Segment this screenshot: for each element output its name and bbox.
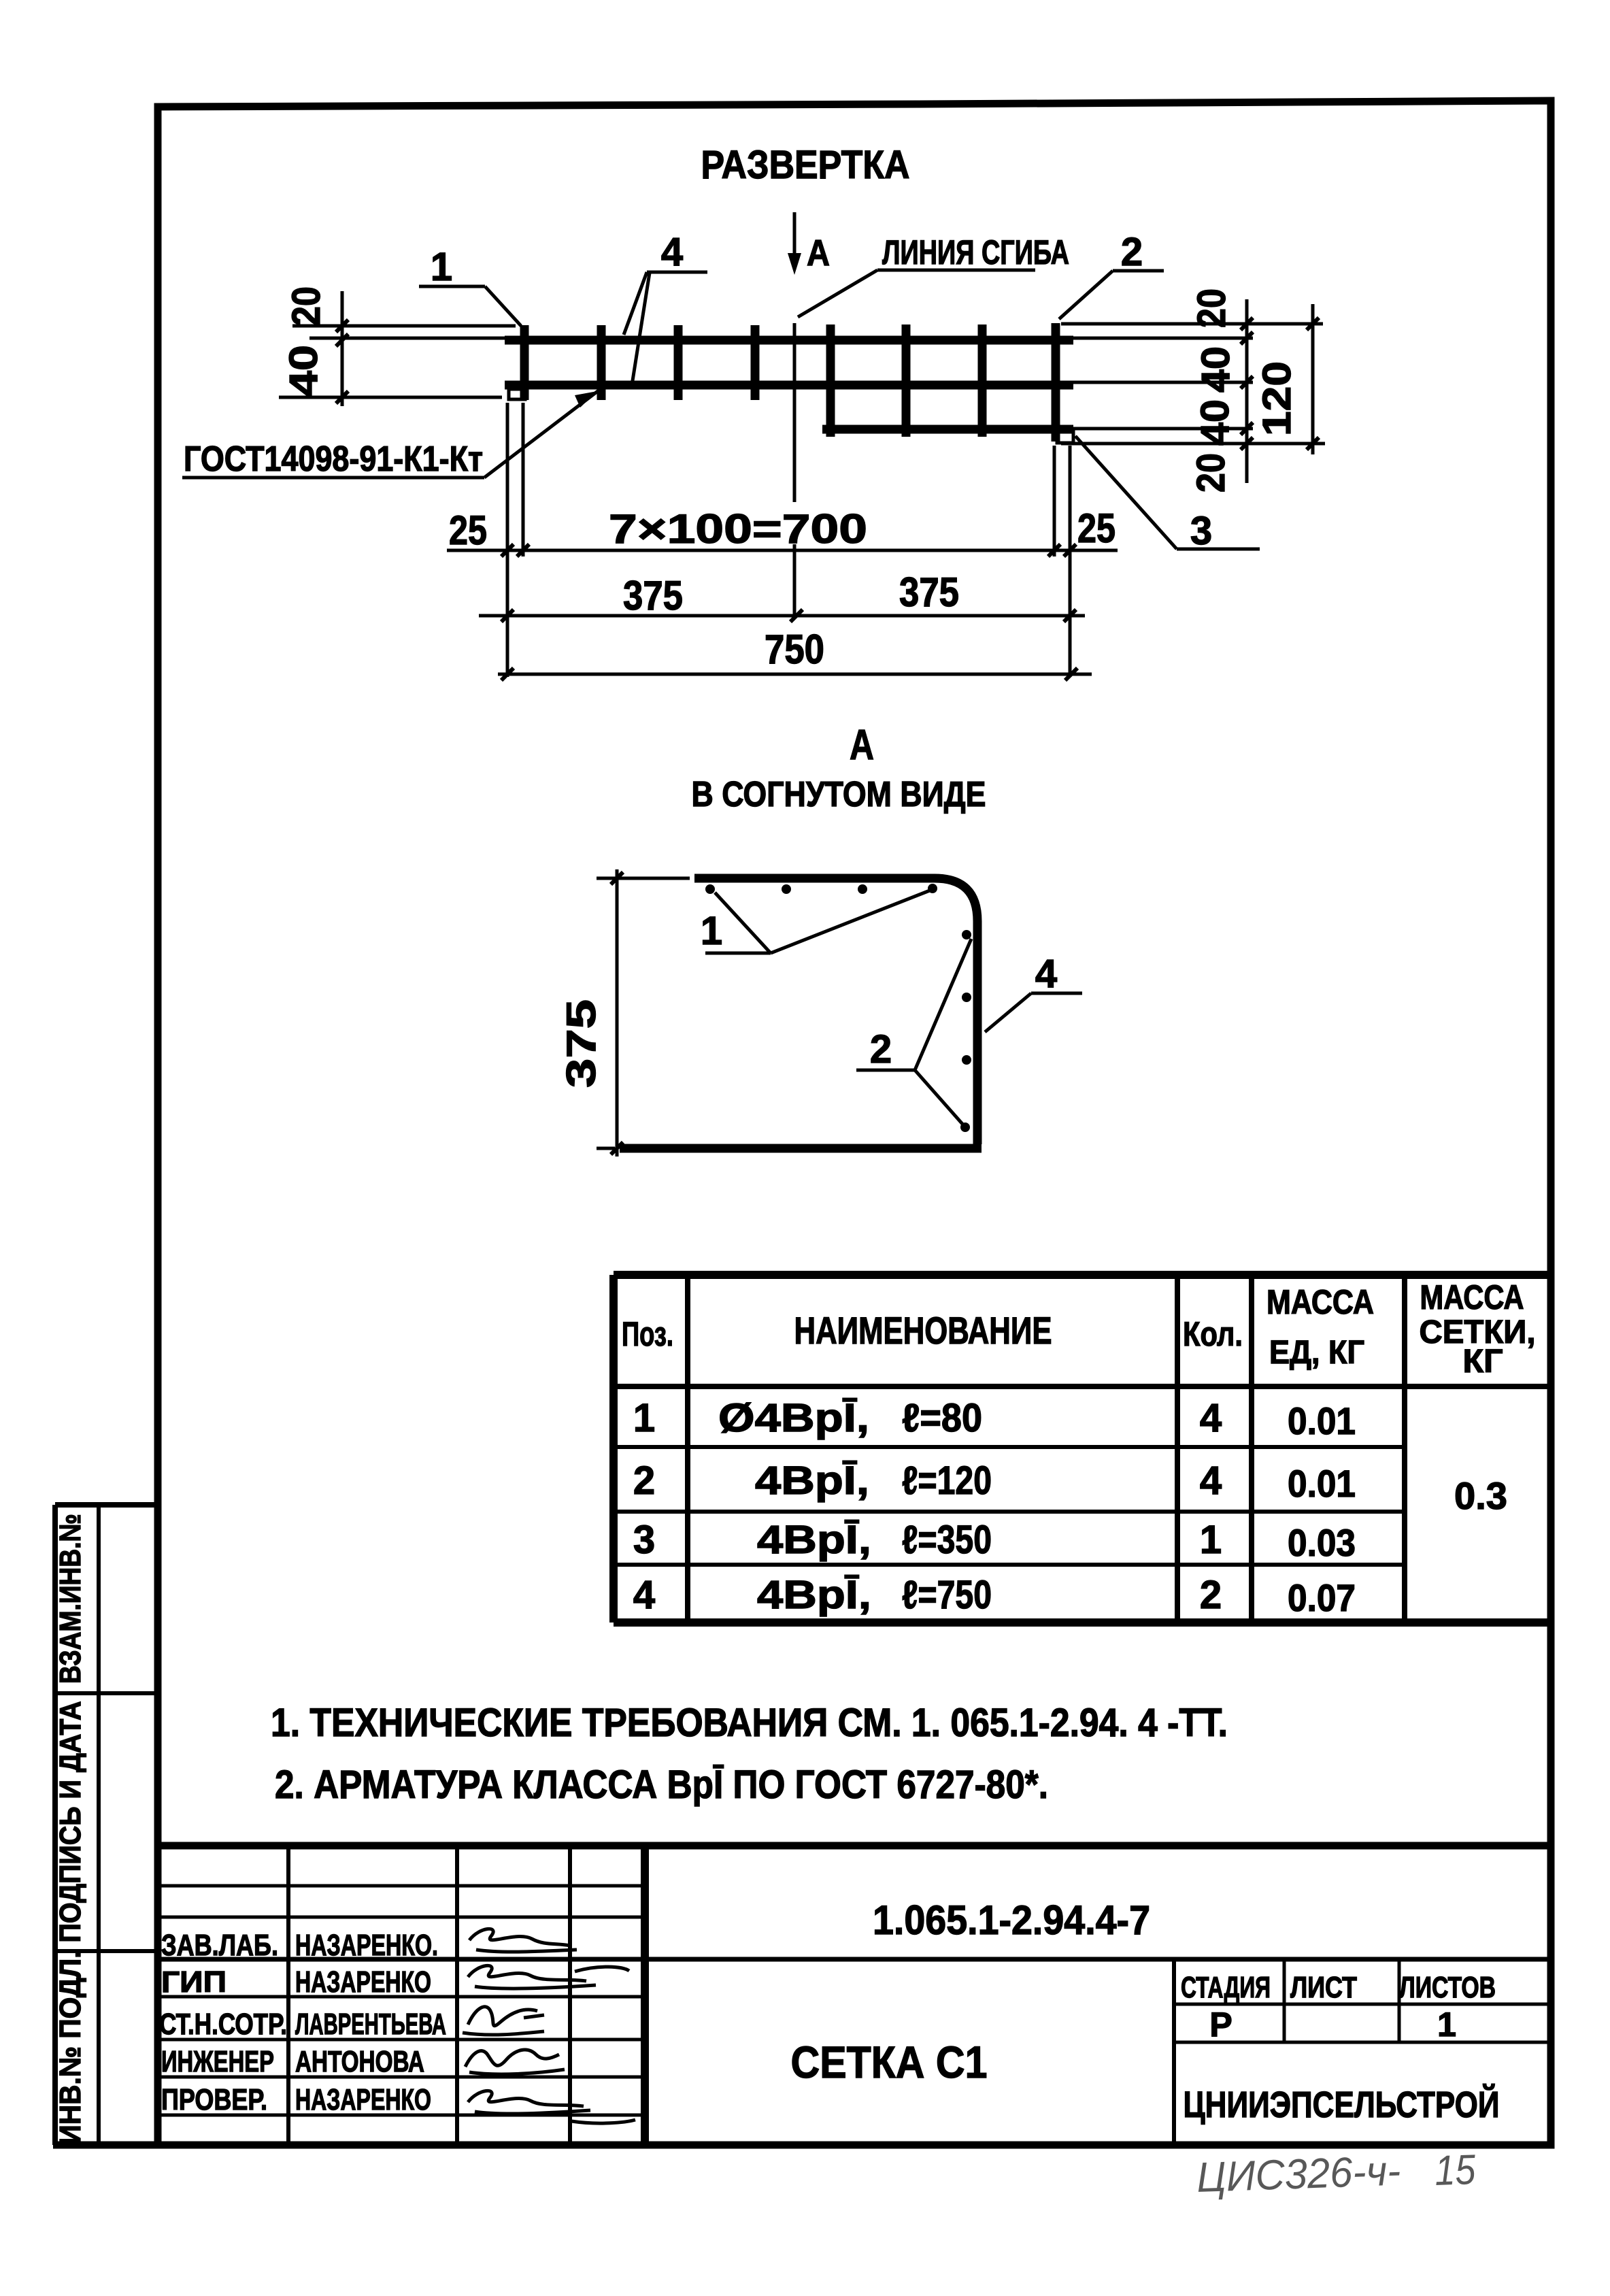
svg-text:МАССА: МАССА [1267,1283,1374,1321]
signature Антонова [465,2050,565,2074]
svg-text:3: 3 [633,1518,655,1562]
title block top border [154,1842,1552,1850]
svg-text:КГ: КГ [1463,1344,1503,1380]
cross wire 1b [597,325,606,400]
svg-text:НАЗАРЕНКО: НАЗАРЕНКО [295,2083,431,2116]
svg-text:1.065.1-2.94.4-7: 1.065.1-2.94.4-7 [873,1897,1150,1943]
table outline [614,1275,1552,1623]
section arrow A [793,212,796,257]
title block column lines [288,1846,570,2145]
cross wire 2a [826,325,835,437]
svg-text:4: 4 [1200,1396,1222,1440]
svg-text:НАЗАРЕНКО: НАЗАРЕНКО [295,1965,431,1999]
svg-text:СЕТКА С1: СЕТКА С1 [791,2037,988,2087]
svg-text:4ВрĪ,: 4ВрĪ, [757,1573,871,1617]
svg-text:СТАДИЯ: СТАДИЯ [1181,1971,1271,2004]
svg-text:А: А [807,233,830,273]
left dimension line [341,291,344,406]
svg-text:ГОСТ14098-91-К1-Кт: ГОСТ14098-91-К1-Кт [184,439,483,479]
svg-text:1: 1 [1437,2006,1456,2044]
bent view extension lines [597,878,690,1148]
column lines [688,1275,1405,1623]
bent view dimension line 375 [616,869,619,1157]
header bottom line [614,1384,1552,1389]
svg-text:Поз.: Поз. [622,1315,673,1353]
svg-text:1. ТЕХНИЧЕСКИЕ ТРЕБОВАНИЯ СМ.: 1. ТЕХНИЧЕСКИЕ ТРЕБОВАНИЯ СМ. 1. 065.1-2… [271,1701,1228,1745]
svg-text:Р: Р [1209,2006,1232,2044]
svg-text:ℓ=120: ℓ=120 [902,1459,992,1503]
svg-text:Кол.: Кол. [1183,1315,1243,1353]
svg-text:НАИМЕНОВАНИЕ: НАИМЕНОВАНИЕ [794,1309,1052,1352]
svg-text:ЛИНИЯ СГИБА: ЛИНИЯ СГИБА [882,233,1069,271]
svg-text:4ВрĪ,: 4ВрĪ, [755,1459,869,1503]
signature Назаренко 3 [468,2091,635,2123]
right inner dim ticks [1241,318,1253,450]
svg-text:2: 2 [633,1459,655,1503]
right inner dimension line [1245,299,1249,483]
svg-text:375: 375 [623,573,683,618]
svg-text:40: 40 [1194,346,1238,393]
svg-text:4: 4 [633,1573,655,1617]
svg-text:20: 20 [1189,453,1233,493]
right extension lines [1061,324,1325,444]
svg-text:ИНЖЕНЕР: ИНЖЕНЕР [161,2045,274,2078]
bent wire 4 (top leg and curved corner) [694,878,977,1144]
svg-text:4ВрĪ,: 4ВрĪ, [757,1518,871,1562]
wire 4 (second longitudinal bar, l=750) [505,381,1073,390]
right outer dimension line [1311,304,1315,454]
cross wire 1c [674,325,683,400]
svg-text:2. АРМАТУРА КЛАССА ВрĪ ПО ГОСТ: 2. АРМАТУРА КЛАССА ВрĪ ПО ГОСТ 6727-80*. [275,1763,1048,1807]
svg-text:40: 40 [1193,399,1237,446]
svg-text:1: 1 [1200,1518,1222,1562]
weld mark left [509,389,525,399]
svg-text:АНТОНОВА: АНТОНОВА [295,2045,424,2078]
svg-text:25: 25 [449,508,487,553]
svg-text:1: 1 [431,245,452,289]
wire 3 (short longitudinal bar, l=350) [822,425,1073,434]
svg-text:1: 1 [633,1396,655,1440]
svg-text:ЛИСТ: ЛИСТ [1290,1971,1357,2004]
svg-text:375: 375 [558,999,604,1088]
cross wire dots top [705,884,715,894]
svg-text:0.01: 0.01 [1288,1462,1356,1505]
drawing frame border [158,101,1551,2145]
svg-text:2: 2 [1121,230,1143,274]
stadia table [1172,1959,1176,2145]
cross wire 1d [751,325,760,400]
dimension line 750 [498,673,1092,676]
svg-text:20: 20 [1190,288,1234,328]
svg-text:25: 25 [1077,505,1116,551]
svg-text:ℓ=80: ℓ=80 [902,1396,982,1440]
svg-text:ЦНИИЭПСЕЛЬСТРОЙ: ЦНИИЭПСЕЛЬСТРОЙ [1184,2084,1500,2125]
cross wire dots right [962,930,971,939]
svg-text:ГИП: ГИП [161,1965,227,1999]
svg-text:4: 4 [1200,1459,1222,1503]
svg-text:750: 750 [765,627,824,672]
dimension line 7x100=700 with 25 ends [447,549,1118,552]
svg-text:ИНВ.№ ПОДЛ.: ИНВ.№ ПОДЛ. [54,1951,87,2145]
fold line (linija sgiba) [793,323,796,616]
svg-text:ЛИСТОВ: ЛИСТОВ [1399,1971,1496,2004]
row lines [614,1447,1405,1565]
svg-text:2: 2 [870,1027,892,1071]
svg-text:ЗАВ.ЛАБ.: ЗАВ.ЛАБ. [161,1929,278,1962]
svg-text:ℓ=350: ℓ=350 [902,1518,992,1562]
right outer dim ticks [1307,318,1319,450]
lower extension verticals [507,403,1070,677]
sidebar bottom [53,2142,158,2149]
svg-text:2: 2 [1200,1573,1222,1617]
svg-text:ВЗАМ.ИНВ.№: ВЗАМ.ИНВ.№ [54,1514,87,1684]
svg-text:4: 4 [1035,952,1057,996]
svg-text:4: 4 [661,230,683,274]
cross wire 2d (right end) [1052,323,1060,442]
svg-text:40: 40 [282,345,326,397]
signature Назаренко 1 [469,1929,577,1952]
cross wire 1a [520,325,529,400]
svg-text:ЦИС326-ч-: ЦИС326-ч- [1196,2148,1401,2201]
svg-text:1: 1 [701,909,722,953]
svg-text:0.01: 0.01 [1288,1399,1356,1442]
svg-text:15: 15 [1434,2146,1477,2195]
weld mark right [1057,431,1073,443]
svg-text:А: А [850,722,874,769]
row line under doc number (full width) [154,1957,1552,1962]
cross wire 2b [902,325,911,437]
signature Лаврентьева [463,2007,544,2035]
title block upper small rows [154,1886,645,1917]
svg-text:120: 120 [1255,361,1299,436]
svg-text:В СОГНУТОМ ВИДЕ: В СОГНУТОМ ВИДЕ [692,775,986,814]
svg-text:ЕД, КГ: ЕД, КГ [1269,1335,1364,1371]
bottom leg bar [620,1144,982,1153]
svg-text:ℓ=750: ℓ=750 [902,1573,992,1617]
svg-text:НАЗАРЕНКО.: НАЗАРЕНКО. [295,1929,438,1962]
svg-text:3: 3 [1190,509,1212,553]
left extension lines [279,326,516,397]
signature row lines [154,1997,645,2115]
svg-text:ПОДПИСЬ И ДАТА: ПОДПИСЬ И ДАТА [54,1701,87,1943]
cross wire 2c [978,325,987,437]
svg-text:ПРОВЕР.: ПРОВЕР. [161,2083,267,2116]
left dim ticks [336,320,348,403]
svg-text:РАЗВЕРТКА: РАЗВЕРТКА [701,143,910,187]
svg-text:0.3: 0.3 [1454,1474,1507,1517]
svg-text:0.03: 0.03 [1288,1521,1356,1564]
sidebar section lines [55,1693,156,1951]
svg-text:0.07: 0.07 [1288,1576,1356,1619]
svg-text:Ø4ВрĪ,: Ø4ВрĪ, [718,1396,869,1440]
svg-text:СТ.Н.СОТР.: СТ.Н.СОТР. [159,2008,287,2041]
svg-text:МАССА: МАССА [1420,1278,1524,1316]
svg-text:375: 375 [899,569,959,615]
dimension line 375+375 [479,614,1085,618]
wire 4 (top longitudinal bar, l=750) [505,336,1073,345]
svg-text:20: 20 [284,286,329,326]
svg-text:7×100=700: 7×100=700 [609,506,867,552]
svg-text:ЛАВРЕНТЬЕВА: ЛАВРЕНТЬЕВА [295,2008,446,2041]
signature Назаренко 2 [468,1965,629,1989]
sidebar outline [55,1505,156,2145]
